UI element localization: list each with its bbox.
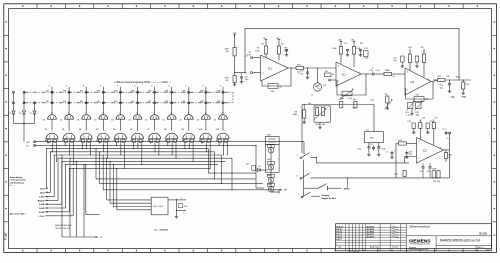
svg-text:b: b bbox=[296, 176, 298, 178]
transductor 2 lead drops bbox=[65, 143, 74, 165]
svg-text:b-i: b-i bbox=[30, 113, 33, 115]
dashed differential-voltage bus (node M100/N101) bbox=[24, 92, 233, 103]
control-wiring annotation block bbox=[10, 176, 27, 187]
svg-text:10μ: 10μ bbox=[440, 88, 444, 90]
svg-text:3: 3 bbox=[407, 71, 409, 73]
IC3 supply feeds bbox=[401, 47, 426, 77]
svg-text:1.5k: 1.5k bbox=[406, 115, 410, 117]
IC4 feedback rail bbox=[394, 150, 449, 178]
svg-text:r. Fernsteuerung: r. Fernsteuerung bbox=[10, 179, 27, 182]
svg-text:4S: 4S bbox=[96, 129, 99, 131]
svg-text:R5: R5 bbox=[385, 94, 388, 96]
svg-text:4: 4 bbox=[372, 68, 374, 70]
svg-text:0.33: 0.33 bbox=[364, 58, 369, 60]
op-amp IC3 bbox=[405, 68, 431, 95]
svg-text:R1: R1 bbox=[261, 43, 264, 45]
svg-text:C4: C4 bbox=[366, 130, 369, 132]
current transductor column 7 (windings 7M/7N/7S) bbox=[145, 85, 160, 143]
blocking diode V3 bbox=[30, 111, 37, 123]
svg-text:+9V: +9V bbox=[422, 118, 426, 120]
IC2 feedback R7b bbox=[337, 73, 367, 100]
control feed 300a bbox=[40, 151, 51, 194]
svg-text:5M: 5M bbox=[114, 90, 117, 92]
svg-text:(7): (7) bbox=[111, 119, 114, 121]
svg-text:Blatt 1–: Blatt 1– bbox=[477, 246, 485, 249]
cap U1 cluster bbox=[387, 151, 396, 159]
svg-text:fr 20Hz: fr 20Hz bbox=[38, 216, 44, 218]
svg-text:Name: Name bbox=[393, 247, 399, 249]
matrix line y189.8 bbox=[103, 189, 282, 191]
svg-text:R13: R13 bbox=[438, 76, 443, 78]
IC1 supply feeds bbox=[257, 38, 288, 61]
svg-text:2k5: 2k5 bbox=[322, 124, 326, 126]
switch stage T3 bbox=[268, 174, 275, 183]
svg-text:10N: 10N bbox=[200, 101, 204, 103]
current transductor column 6 (windings 6M/6N/6S) bbox=[128, 85, 143, 143]
svg-text:3S: 3S bbox=[79, 129, 82, 131]
svg-text:33k: 33k bbox=[416, 115, 419, 117]
svg-text:10k: 10k bbox=[184, 206, 188, 208]
svg-text:(7): (7) bbox=[197, 119, 200, 121]
terminal 1W1 bbox=[34, 141, 36, 143]
current transductor column 8 (windings 8M/8N/8S) bbox=[163, 85, 178, 143]
svg-text:1: 1 bbox=[171, 112, 172, 114]
offset trimmer R5 bbox=[385, 94, 393, 110]
svg-text:11S: 11S bbox=[216, 129, 220, 131]
matrix line y178.9 bbox=[96, 178, 256, 180]
svg-text:8M: 8M bbox=[165, 90, 168, 92]
IC3 feedback R11 bbox=[405, 82, 433, 102]
input feeder wires at left edge bbox=[13, 91, 26, 111]
svg-text:(7): (7) bbox=[214, 119, 217, 121]
switch stage T2 bbox=[268, 161, 275, 170]
svg-text:5S: 5S bbox=[113, 129, 116, 131]
svg-text:1: 1 bbox=[222, 112, 223, 114]
svg-text:4k7: 4k7 bbox=[246, 164, 250, 166]
svg-text:9S: 9S bbox=[181, 129, 184, 131]
svg-text:C14: C14 bbox=[407, 121, 412, 123]
gain trimmers R12/R10 bbox=[406, 100, 423, 115]
svg-text:U: U bbox=[387, 151, 389, 153]
svg-text:2: 2 bbox=[418, 158, 420, 160]
svg-text:R15a: R15a bbox=[456, 77, 462, 79]
bus wire 4 bbox=[50, 151, 214, 153]
title block SIEMENS bbox=[407, 225, 492, 252]
IC1 input terminals bbox=[245, 55, 261, 74]
svg-text:9.5.77: 9.5.77 bbox=[336, 239, 342, 241]
svg-text:C10: C10 bbox=[370, 99, 375, 101]
svg-text:C9: C9 bbox=[301, 71, 304, 73]
svg-text:8a: 8a bbox=[245, 73, 248, 75]
stub to diode 3 bbox=[34, 103, 36, 111]
svg-text:R29: R29 bbox=[225, 77, 230, 79]
svg-text:5k: 5k bbox=[393, 76, 395, 78]
contact a4 Gruppig bbox=[301, 192, 337, 200]
svg-text:Uₐ: Uₐ bbox=[447, 138, 450, 140]
filter block 508 with C0/C1 bbox=[357, 130, 386, 157]
svg-text:5N: 5N bbox=[114, 101, 117, 103]
svg-text:1V: 1V bbox=[26, 146, 29, 148]
control feed BCD IE bbox=[38, 158, 59, 203]
svg-text:IC1: IC1 bbox=[268, 68, 272, 71]
chain bias tail bbox=[271, 189, 288, 193]
svg-text:Steuerleitung: Steuerleitung bbox=[10, 176, 24, 179]
svg-text:R8: R8 bbox=[360, 43, 363, 45]
input attenuator network bbox=[293, 99, 374, 153]
svg-text:9: 9 bbox=[168, 85, 170, 87]
control feed 1-2kΩ bbox=[39, 161, 62, 206]
control feed 5-6kΩ bbox=[39, 168, 70, 214]
svg-text:b2: b2 bbox=[324, 85, 327, 87]
bus6 drop bbox=[231, 158, 233, 190]
svg-text:3M: 3M bbox=[80, 90, 83, 92]
svg-text:100a: 100a bbox=[40, 188, 45, 190]
IC2 supply feeds bbox=[338, 39, 369, 67]
transductor 4 lead drops bbox=[99, 141, 108, 159]
control feed 1-6kΩ bbox=[39, 164, 66, 210]
cap C13 cluster bbox=[405, 151, 413, 159]
svg-text:7M: 7M bbox=[148, 90, 151, 92]
svg-text:4N: 4N bbox=[97, 101, 100, 103]
svg-text:1: 1 bbox=[298, 194, 300, 196]
op-amp IC4 bbox=[417, 138, 444, 164]
svg-text:R18: R18 bbox=[432, 168, 437, 170]
svg-text:-9V: -9V bbox=[351, 39, 355, 41]
svg-text:R11: R11 bbox=[416, 95, 420, 97]
IC1 output coupling and T1 bbox=[290, 65, 336, 97]
transductor 11 lead drops bbox=[219, 143, 228, 155]
bus3 drop bbox=[208, 149, 256, 174]
svg-text:1: 1 bbox=[394, 151, 396, 153]
matrix wire to 2Q input 2 bbox=[109, 161, 111, 203]
svg-text:R30: R30 bbox=[271, 91, 276, 93]
cap C2 near 508 bbox=[370, 144, 375, 151]
svg-text:C1y: C1y bbox=[370, 70, 375, 72]
svg-text:0.33: 0.33 bbox=[247, 55, 252, 57]
svg-text:IC3: IC3 bbox=[423, 149, 427, 152]
transductor 3 lead drops bbox=[82, 143, 91, 155]
svg-text:für:: für: bbox=[10, 185, 13, 187]
svg-text:10S: 10S bbox=[198, 129, 202, 131]
svg-text:3: 3 bbox=[262, 58, 264, 60]
svg-text:9: 9 bbox=[100, 85, 102, 87]
svg-text:(7): (7) bbox=[180, 119, 183, 121]
svg-text:2S: 2S bbox=[62, 129, 65, 131]
op-amp IC2 bbox=[336, 62, 361, 86]
svg-text:100k: 100k bbox=[356, 48, 360, 50]
blocking diode V1 bbox=[9, 111, 16, 123]
svg-text:Doppel für Bu 1: Doppel für Bu 1 bbox=[321, 198, 337, 200]
svg-text:3: 3 bbox=[338, 65, 340, 67]
svg-text:1.2μ: 1.2μ bbox=[376, 70, 381, 72]
svg-text:(7): (7) bbox=[77, 119, 80, 121]
svg-text:-12: -12 bbox=[284, 189, 288, 191]
revision table bbox=[336, 224, 492, 253]
svg-text:1: 1 bbox=[102, 112, 103, 114]
svg-text:C2: C2 bbox=[370, 144, 373, 146]
svg-text:11N: 11N bbox=[217, 101, 221, 103]
svg-text:9M: 9M bbox=[183, 90, 186, 92]
svg-text:2: 2 bbox=[262, 73, 264, 75]
bus5 drop bbox=[221, 155, 223, 184]
svg-text:1S: 1S bbox=[45, 129, 48, 131]
transductor 6 lead drops bbox=[133, 143, 142, 165]
svg-text:9: 9 bbox=[66, 85, 68, 87]
blocking diode V2 bbox=[19, 111, 26, 123]
component value annotations bbox=[247, 43, 462, 196]
contact a3 to node W120 bbox=[304, 184, 351, 191]
svg-text:+9V: +9V bbox=[338, 39, 342, 41]
svg-text:9: 9 bbox=[134, 85, 136, 87]
bus wire 5 bbox=[54, 154, 221, 156]
svg-text:0.8μ: 0.8μ bbox=[382, 149, 387, 151]
svg-text:6S: 6S bbox=[130, 129, 133, 131]
svg-text:100k: 100k bbox=[284, 50, 288, 52]
svg-text:9: 9 bbox=[117, 85, 119, 87]
svg-text:BCD IE: BCD IE bbox=[38, 200, 45, 202]
relay group box 2Q1...2Q10 bbox=[151, 197, 168, 215]
svg-text:(7): (7) bbox=[145, 119, 148, 121]
svg-text:9: 9 bbox=[49, 85, 51, 87]
IC2-IC3 coupling bbox=[366, 70, 405, 76]
svg-text:2k4 1k2 1k0 1k6: 2k4 1k2 1k0 1k6 bbox=[55, 228, 71, 230]
svg-text:R28: R28 bbox=[225, 49, 230, 51]
svg-text:680k: 680k bbox=[293, 114, 298, 116]
compensation C15/C16 bbox=[420, 163, 432, 178]
current transductor column 1 (windings 1M/1N/1S) bbox=[43, 85, 58, 143]
drive wire with diode bbox=[246, 145, 268, 188]
svg-text:Meßumformertechnik: Meßumformertechnik bbox=[409, 248, 428, 251]
matrix wire to 2Q input 1 bbox=[106, 158, 108, 200]
svg-text:+9V: +9V bbox=[276, 38, 280, 40]
svg-text:Änderung: Änderung bbox=[370, 246, 379, 249]
svg-text:1: 1 bbox=[68, 112, 69, 114]
svg-text:8S: 8S bbox=[164, 129, 167, 131]
transductor 5 lead drops bbox=[116, 143, 125, 169]
svg-text:6-14: 6-14 bbox=[4, 233, 8, 240]
svg-text:47k: 47k bbox=[225, 80, 229, 82]
2Q output network bbox=[168, 198, 188, 218]
reference divider R28/R29/C8 bbox=[225, 31, 249, 86]
svg-text:-9V: -9V bbox=[435, 118, 439, 120]
svg-text:9: 9 bbox=[203, 85, 205, 87]
current transductor column 11 (windings 11M/11N/11S) bbox=[214, 85, 229, 143]
svg-text:1 Legende: 1 Legende bbox=[350, 251, 360, 253]
IC4 upper input bbox=[396, 140, 417, 178]
svg-text:1: 1 bbox=[119, 112, 120, 114]
svg-text:4M: 4M bbox=[97, 90, 100, 92]
svg-text:1: 1 bbox=[188, 112, 189, 114]
svg-text:1W: 1W bbox=[26, 142, 29, 144]
diode common rail bbox=[14, 122, 35, 124]
current transductor column 2 (windings 2M/2N/2S) bbox=[60, 85, 75, 143]
svg-text:IC1: IC1 bbox=[342, 74, 346, 77]
current transductor column 10 (windings 10M/10N/10S) bbox=[197, 85, 212, 143]
bus4 drop bbox=[213, 152, 215, 179]
svg-text:0.8μ: 0.8μ bbox=[357, 149, 362, 151]
svg-text:Tag: Tag bbox=[338, 247, 341, 249]
svg-text:1-6kΩ: 1-6kΩ bbox=[39, 208, 45, 210]
svg-text:R1: R1 bbox=[257, 48, 260, 50]
svg-text:100k: 100k bbox=[332, 48, 336, 50]
svg-text:C17: C17 bbox=[442, 129, 447, 131]
svg-text:100k: 100k bbox=[255, 50, 259, 52]
svg-text:9: 9 bbox=[186, 85, 188, 87]
svg-text:(7): (7) bbox=[128, 119, 131, 121]
svg-text:10n: 10n bbox=[353, 99, 356, 101]
svg-text:2: 2 bbox=[407, 89, 409, 91]
svg-text:(7): (7) bbox=[163, 119, 166, 121]
svg-text:10k: 10k bbox=[446, 76, 449, 78]
IC3 output filter bbox=[433, 76, 471, 99]
current transductor column 4 (windings 4M/4N/4S) bbox=[94, 85, 109, 143]
svg-text:192188: 192188 bbox=[478, 232, 487, 236]
bus wire 6 bbox=[58, 157, 232, 159]
transductor 10 lead drops bbox=[201, 141, 210, 169]
svg-text:T1: T1 bbox=[311, 94, 314, 96]
svg-text:+ Differenzspannungsweg M100: + Differenzspannungsweg M100 —— ——N101 → bbox=[114, 80, 172, 84]
svg-text:100k: 100k bbox=[462, 97, 467, 99]
op-amp IC1 bbox=[261, 55, 289, 81]
svg-text:R2: R2 bbox=[281, 43, 284, 45]
shield bus wire bbox=[245, 28, 459, 79]
svg-text:1: 1 bbox=[336, 244, 338, 246]
svg-text:B40 B40 B40 B40: B40 B40 B40 B40 bbox=[55, 225, 72, 227]
svg-text:2M: 2M bbox=[63, 90, 66, 92]
switch stage T1 bbox=[268, 144, 275, 153]
svg-text:R17: R17 bbox=[394, 174, 399, 176]
svg-text:(7): (7) bbox=[94, 119, 97, 121]
current transductor column 5 (windings 5M/5N/5S) bbox=[111, 85, 126, 143]
svg-text:R10: R10 bbox=[415, 112, 420, 114]
svg-text:47μ: 47μ bbox=[430, 121, 433, 123]
terminal 1V1 bbox=[34, 144, 36, 146]
IC4 output to Ua bbox=[442, 129, 453, 162]
transductor 1 lead drops bbox=[48, 141, 57, 162]
svg-text:1: 1 bbox=[136, 112, 137, 114]
svg-text:5-6kΩ: 5-6kΩ bbox=[39, 212, 45, 214]
svg-text:Name: Name bbox=[486, 249, 490, 251]
drop wire x85.8 bbox=[86, 165, 100, 215]
svg-text:1M: 1M bbox=[226, 51, 229, 53]
svg-text:S44005-W5000-a101-a-7ut: S44005-W5000-a101-a-7ut bbox=[440, 239, 480, 243]
svg-text:2k: 2k bbox=[280, 86, 283, 88]
svg-text:(7): (7) bbox=[43, 119, 46, 121]
relay select wire 1 bbox=[61, 155, 63, 237]
IC1 feedback R30 bbox=[262, 68, 291, 93]
svg-text:-12: -12 bbox=[99, 237, 103, 239]
svg-text:R4: R4 bbox=[325, 71, 328, 73]
bus wire 3 bbox=[47, 148, 209, 150]
svg-text:-9V: -9V bbox=[263, 38, 267, 40]
svg-text:b-i: b-i bbox=[9, 113, 12, 115]
svg-text:1M: 1M bbox=[46, 90, 49, 92]
svg-text:4e 5107: 4e 5107 bbox=[367, 235, 375, 238]
svg-text:3: 3 bbox=[418, 141, 420, 143]
input stage box 1N1 bbox=[265, 134, 279, 172]
transductor 7 lead drops bbox=[150, 141, 159, 155]
svg-text:ra: ra bbox=[234, 31, 237, 34]
bus wire 8 bbox=[66, 164, 218, 166]
svg-text:1k: 1k bbox=[332, 74, 334, 76]
svg-text:1: 1 bbox=[85, 112, 86, 114]
svg-text:11M: 11M bbox=[217, 90, 221, 92]
svg-text:IC2: IC2 bbox=[411, 81, 415, 84]
svg-text:-9V: -9V bbox=[421, 47, 425, 49]
svg-text:Gruppig: Gruppig bbox=[321, 195, 330, 197]
svg-text:2N: 2N bbox=[63, 101, 66, 103]
svg-text:5-6Hz: 5-6Hz bbox=[39, 197, 44, 199]
matrix line y183.6 bbox=[100, 183, 263, 185]
transductor 8 lead drops bbox=[167, 143, 176, 158]
svg-text:R9: R9 bbox=[387, 70, 390, 72]
IC2 lower input bbox=[329, 79, 337, 81]
svg-text:R12: R12 bbox=[406, 112, 411, 114]
bus wire 9 bbox=[69, 167, 210, 169]
svg-text:508: 508 bbox=[370, 138, 374, 140]
svg-text:2: 2 bbox=[338, 81, 340, 83]
contact a2 with long rail bbox=[300, 160, 449, 197]
svg-text:-W120: -W120 bbox=[343, 188, 350, 190]
svg-text:300a: 300a bbox=[40, 192, 45, 194]
bus wire 2 bbox=[35, 144, 256, 146]
svg-text:10n: 10n bbox=[409, 154, 412, 156]
svg-text:47μ: 47μ bbox=[393, 60, 396, 62]
svg-text:C15: C15 bbox=[420, 171, 425, 173]
svg-text:C12: C12 bbox=[364, 48, 369, 50]
svg-text:8N: 8N bbox=[165, 101, 168, 103]
svg-text:L: L bbox=[183, 212, 185, 214]
svg-text:9: 9 bbox=[220, 85, 222, 87]
svg-text:b-i: b-i bbox=[19, 113, 22, 115]
svg-text:1-2kΩ: 1-2kΩ bbox=[39, 204, 45, 206]
relay select wire 3 bbox=[76, 161, 78, 237]
svg-text:1: 1 bbox=[51, 112, 52, 114]
svg-text:b1 ... 9 RLN 7): b1 ... 9 RLN 7) bbox=[155, 230, 169, 232]
matrix wire to 2Q input 4 bbox=[116, 168, 118, 209]
relay value labels bbox=[55, 225, 72, 230]
relay select wire 2 bbox=[69, 158, 71, 237]
svg-text:R40: R40 bbox=[316, 124, 321, 126]
svg-text:10M: 10M bbox=[200, 90, 204, 92]
svg-text:6M: 6M bbox=[131, 90, 134, 92]
svg-text:2Q1...2Q10: 2Q1...2Q10 bbox=[153, 206, 164, 208]
IC4 lower input bbox=[405, 157, 417, 163]
minus-12V return rail bbox=[62, 236, 103, 239]
svg-text:9: 9 bbox=[83, 85, 85, 87]
matrix wire to 2Q input 3 bbox=[112, 165, 114, 207]
chain wire bbox=[270, 145, 272, 192]
transductor 9 lead drops bbox=[184, 143, 193, 162]
svg-text:7: 7 bbox=[296, 155, 298, 157]
current transductor column 9 (windings 9M/9N/9S) bbox=[180, 85, 195, 143]
current transductor column 3 (windings 3M/3N/3S) bbox=[77, 85, 92, 143]
control feed 5-6Hz bbox=[39, 154, 55, 198]
svg-text:+9V: +9V bbox=[408, 47, 412, 49]
svg-text:Sperre für 1-Ne 1: Sperre für 1-Ne 1 bbox=[10, 214, 27, 216]
switch stage T4 bbox=[268, 183, 275, 192]
svg-text:1.3n: 1.3n bbox=[299, 73, 303, 75]
svg-text:9N: 9N bbox=[183, 101, 186, 103]
svg-text:1: 1 bbox=[153, 112, 154, 114]
svg-text:und Kondensat: und Kondensat bbox=[10, 181, 25, 184]
svg-text:7S: 7S bbox=[147, 129, 150, 131]
control feed 100a bbox=[40, 148, 47, 190]
svg-text:10n: 10n bbox=[245, 79, 248, 81]
svg-text:1N1: 1N1 bbox=[267, 134, 272, 136]
svg-text:(9): (9) bbox=[259, 166, 262, 168]
svg-text:1k: 1k bbox=[448, 157, 451, 159]
